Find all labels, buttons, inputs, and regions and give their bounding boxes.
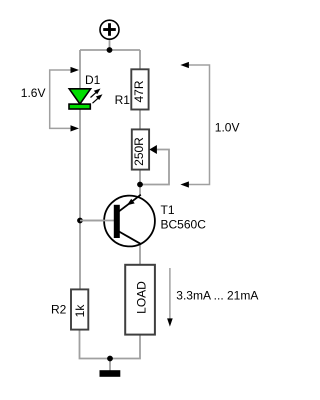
wire left branch vertical bbox=[79, 50, 81, 290]
wire top horizontal rail bbox=[80, 49, 140, 51]
svg-text:1.0V: 1.0V bbox=[215, 121, 240, 135]
svg-text:BC560C: BC560C bbox=[161, 218, 207, 232]
ground bbox=[100, 370, 121, 377]
resistor R1 47R bbox=[131, 69, 148, 109]
svg-text:T1: T1 bbox=[161, 203, 175, 217]
wire ground stub bbox=[109, 359, 111, 371]
wire 250R bottom to emitter bbox=[139, 170, 141, 197]
svg-text:1k: 1k bbox=[73, 304, 87, 318]
svg-text:R1: R1 bbox=[115, 93, 131, 107]
led D1 bbox=[69, 89, 103, 110]
wire right branch top bbox=[139, 50, 141, 70]
node top junction bbox=[107, 47, 113, 53]
wire collector to load bbox=[139, 243, 141, 265]
svg-text:3.3mA ... 21mA: 3.3mA ... 21mA bbox=[176, 289, 258, 303]
load box bbox=[125, 265, 155, 335]
current arrow bbox=[167, 268, 173, 327]
wire power stub bbox=[109, 39, 111, 50]
power supply + terminal bbox=[100, 20, 119, 39]
wire load bottom bbox=[110, 334, 140, 359]
measurement bracket 1.6V bbox=[50, 67, 79, 132]
wire between R1 and 250R bbox=[139, 109, 141, 130]
resistor 250R (rheostat) bbox=[132, 129, 149, 169]
node base junction bbox=[77, 218, 83, 224]
wire R2 bottom bbox=[80, 329, 111, 359]
svg-text:250R: 250R bbox=[132, 137, 146, 166]
node ground junction bbox=[107, 356, 113, 362]
measurement bracket 1.0V bbox=[180, 62, 209, 188]
svg-text:R2: R2 bbox=[51, 303, 67, 317]
wiper arrow of 250R bbox=[149, 145, 157, 154]
wire rheostat wiper loop bbox=[140, 150, 169, 185]
wire base bbox=[80, 220, 115, 222]
svg-text:1.6V: 1.6V bbox=[21, 86, 46, 100]
svg-text:D1: D1 bbox=[85, 73, 101, 87]
resistor R2 1k bbox=[71, 289, 88, 329]
transistor T1 BC560C bbox=[80, 195, 155, 247]
svg-text:47R: 47R bbox=[132, 80, 146, 102]
node emitter junction bbox=[137, 182, 143, 188]
svg-text:LOAD: LOAD bbox=[135, 281, 149, 314]
